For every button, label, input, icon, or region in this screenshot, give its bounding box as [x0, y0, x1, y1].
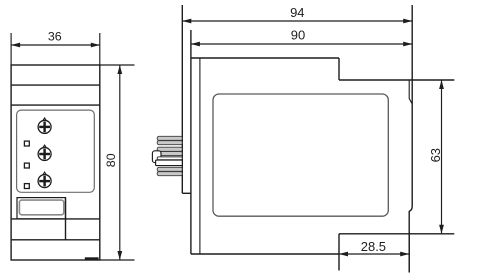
- din clip bracket: [152, 151, 161, 163]
- dimension 28.5: [408, 234, 410, 273]
- rear edge with bottom jog / 94 extension: [409, 5, 412, 273]
- terminal fins group 2: [157, 147, 182, 155]
- dimension 36: [11, 33, 100, 65]
- side view front face / 94 extension: [181, 5, 183, 193]
- din clip tab: [85, 257, 99, 260]
- svg-text:36: 36: [48, 29, 62, 43]
- rear bottom edge + 63 extension: [339, 233, 454, 235]
- label row line: [11, 218, 100, 220]
- label window outer: [17, 198, 66, 219]
- terminal fins group 1: [157, 136, 182, 144]
- svg-text:94: 94: [290, 5, 304, 20]
- top step: [338, 58, 340, 80]
- thin white fin: [157, 157, 182, 160]
- svg-text:63: 63: [428, 148, 443, 162]
- rear top edge + 63 extension: [339, 79, 454, 81]
- side panel rounded plate: [213, 94, 388, 216]
- dimension 80: [100, 65, 135, 260]
- front panel rounded plate: [17, 110, 95, 192]
- LED window 3: [24, 184, 29, 189]
- dimension 90: [191, 43, 412, 45]
- terminal fins group 3: [157, 167, 182, 175]
- svg-text:80: 80: [104, 153, 118, 167]
- dimension 63: [441, 80, 443, 234]
- lower row line: [11, 239, 100, 241]
- front view body outline: [11, 65, 100, 260]
- front bezel inner line: [199, 58, 201, 254]
- screw 3: [38, 172, 51, 187]
- rear groove line: [409, 80, 412, 104]
- second band line: [11, 104, 100, 106]
- dimension 94: [182, 20, 412, 22]
- side view front edge / 90 extension: [190, 30, 192, 254]
- front slab bottom step: [182, 192, 191, 194]
- side view top edge: [191, 57, 339, 59]
- label window inner: [19, 200, 63, 215]
- din clip slider bar: [156, 160, 183, 166]
- lower row divider: [65, 198, 67, 240]
- bottom step + 28.5 extension: [338, 234, 340, 271]
- svg-text:28.5: 28.5: [361, 239, 386, 254]
- side view bottom edge: [191, 253, 339, 255]
- screw 2: [38, 145, 51, 160]
- LED window 2: [24, 163, 29, 168]
- top band line: [11, 84, 100, 86]
- screw 1: [38, 118, 51, 133]
- svg-text:90: 90: [291, 28, 305, 43]
- LED window 1: [24, 141, 29, 146]
